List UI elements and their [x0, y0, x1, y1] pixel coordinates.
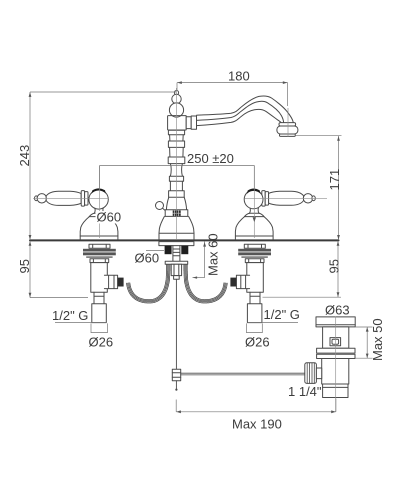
svg-text:171: 171	[327, 169, 342, 191]
dimension 180 lines	[177, 83, 288, 106]
arrow 171 bottom	[337, 235, 340, 240]
spout arm	[197, 96, 294, 126]
svg-text:1/2" G: 1/2" G	[52, 308, 88, 323]
arrow 250 left	[98, 217, 101, 222]
drain centerline	[335, 317, 337, 412]
spout junction cylinder	[168, 116, 187, 130]
spout outlet bell	[277, 123, 298, 137]
svg-text:95: 95	[327, 259, 342, 273]
svg-text:243: 243	[17, 145, 32, 167]
arrow 180 right	[283, 81, 288, 84]
dimension Max50 lines	[355, 327, 372, 358]
svg-text:250 ±20: 250 ±20	[187, 151, 234, 166]
arrowheads	[29, 81, 369, 413]
right valve shank below deck	[238, 244, 271, 262]
svg-text:1 1/4": 1 1/4"	[288, 384, 322, 399]
right handle centerline horizontal	[245, 197, 327, 199]
dimension 243 lines	[30, 92, 176, 240]
svg-text:Ø60: Ø60	[97, 210, 122, 225]
drain neck	[323, 327, 349, 348]
spout attachment rings	[186, 116, 196, 129]
leader diameter 60 center	[146, 250, 164, 252]
drain flange	[316, 317, 355, 327]
right valve body	[230, 263, 263, 323]
svg-text:Max 50: Max 50	[370, 318, 385, 361]
left hose	[127, 264, 170, 303]
cartridge band	[165, 210, 188, 217]
arrow 95 left top	[29, 241, 32, 246]
left handle lever	[35, 191, 89, 207]
dimension 171 lines	[296, 136, 342, 240]
column finial	[169, 91, 183, 118]
svg-text:Ø26: Ø26	[245, 335, 270, 350]
rod joint block	[172, 369, 180, 380]
horizontal drain rod	[181, 373, 305, 375]
arrow 243 bottom	[29, 235, 32, 240]
spout outlet centerline	[287, 108, 289, 137]
right hose	[184, 264, 227, 303]
left handle base bell	[80, 217, 118, 240]
dimension 250 lines	[100, 166, 255, 190]
column centerline	[175, 88, 177, 239]
bracket diameter 26 left	[91, 323, 107, 332]
drain body	[322, 359, 349, 385]
rod tip	[175, 381, 177, 389]
drain tailpiece	[323, 384, 348, 398]
centerlines	[33, 88, 336, 412]
dimension 95 right line	[263, 241, 342, 297]
left valve shank below deck	[83, 244, 116, 262]
pop-up lift knob	[156, 202, 168, 213]
right handle base bell	[235, 217, 273, 240]
center body flange below deck	[159, 242, 194, 280]
left handle centerline horizontal	[33, 197, 109, 199]
arrow Max190 right	[331, 410, 336, 413]
svg-text:180: 180	[228, 69, 250, 84]
arrow Max60 top	[203, 242, 206, 247]
right handle neck and dome	[245, 208, 265, 217]
left handle neck and dome	[89, 208, 109, 217]
svg-text:Max 190: Max 190	[232, 417, 282, 432]
drain stem	[316, 368, 321, 379]
arrow 95 right bottom	[337, 292, 340, 297]
left handle ball	[89, 188, 108, 209]
column shaft with rings	[166, 130, 186, 210]
pop-up rod	[175, 279, 177, 369]
dimension 95 left line	[30, 241, 88, 298]
svg-text:Ø63: Ø63	[325, 303, 350, 318]
label diameter 60 handle	[96, 210, 122, 225]
svg-text:95: 95	[17, 259, 32, 273]
drain locknut rings	[317, 348, 355, 358]
leader 1/2G right	[247, 322, 298, 324]
svg-text:Max 60: Max 60	[206, 233, 221, 276]
arrow Max50 top	[366, 327, 369, 331]
arrow 95 left bottom	[29, 293, 32, 298]
arrow 250 right	[253, 217, 256, 222]
drain clip window	[330, 338, 341, 346]
arrow Max50 bottom	[366, 354, 369, 358]
right handle lever	[262, 191, 316, 207]
deck line	[30, 239, 339, 241]
left handle centerline vertical	[99, 166, 101, 238]
arrow 180 left	[177, 81, 182, 84]
dimension Max60 lines	[193, 242, 205, 278]
arrow 171 top	[337, 136, 340, 141]
svg-text:Ø60: Ø60	[135, 251, 160, 266]
right handle centerline vertical	[253, 166, 255, 238]
bracket diameter 26 right	[247, 323, 263, 332]
dimension Max190 lines	[176, 399, 336, 412]
leader 1/2G left	[55, 322, 106, 324]
column base bell	[159, 216, 194, 239]
arrow Max190 left	[176, 410, 181, 413]
left valve body	[91, 263, 124, 323]
arrow 95 right top	[337, 241, 340, 246]
drain side knurled nut	[305, 363, 317, 384]
svg-text:1/2" G: 1/2" G	[264, 307, 300, 322]
arrow 243 top	[29, 92, 32, 97]
svg-text:Ø26: Ø26	[89, 335, 114, 350]
arrow Max60 bottom	[193, 276, 197, 278]
right handle ball	[244, 189, 263, 209]
